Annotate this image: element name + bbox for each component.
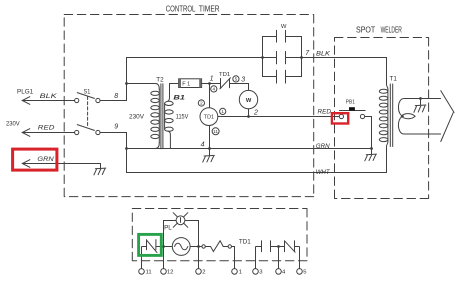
node junction right of sine motor <box>197 245 200 248</box>
contact TD1 normally-closed <box>220 78 231 89</box>
svg-text:S1: S1 <box>84 89 91 96</box>
svg-text:2: 2 <box>253 110 258 117</box>
wire BLK top run to W contacts <box>127 58 263 84</box>
svg-text:T1: T1 <box>390 76 398 83</box>
arrow PLG1 BLK <box>22 97 30 105</box>
wire PL lamp right leg <box>185 221 199 247</box>
svg-text:BLK: BLK <box>40 93 58 100</box>
pin 2 circled <box>198 100 204 106</box>
contact TD1 normally-open (bottom) <box>256 241 279 252</box>
node junction GRN to PB1 <box>370 147 373 150</box>
svg-text:T2: T2 <box>156 77 164 84</box>
node junction T2 primary top <box>125 82 128 85</box>
svg-text:PB1: PB1 <box>346 99 355 105</box>
svg-text:9: 9 <box>114 124 118 131</box>
transformer T2 primary winding <box>127 84 160 149</box>
wire N device to sine motor <box>156 246 173 248</box>
terminal 1 <box>232 269 238 275</box>
svg-text:5: 5 <box>235 77 238 82</box>
arrow PLG1 GRN <box>22 160 30 168</box>
terminal detail enclosure dashed box <box>132 209 307 261</box>
svg-text:8: 8 <box>114 93 118 100</box>
ground at node 4 <box>203 149 215 163</box>
svg-text:4: 4 <box>213 87 216 92</box>
pin 4 circled <box>211 86 217 92</box>
svg-text:115V: 115V <box>176 114 189 121</box>
svg-text:1: 1 <box>239 270 242 276</box>
node junction below W motor <box>247 115 250 118</box>
wire TD1 contact to W motor <box>230 84 249 91</box>
svg-text:TD1: TD1 <box>204 115 214 121</box>
node junction above terminal 4 <box>277 245 280 248</box>
svg-text:2: 2 <box>200 101 203 106</box>
switch S1 pole B <box>75 125 100 135</box>
svg-text:230V: 230V <box>6 120 20 127</box>
transformer T2 secondary winding <box>165 84 174 149</box>
svg-text:RED: RED <box>318 108 332 115</box>
wire spring switch to terminal 1 <box>232 247 235 269</box>
timer sync motor (sine) <box>172 238 190 256</box>
wire BLK from W contacts to T1 <box>302 58 387 85</box>
wire common bottom run to GRN junction <box>127 148 372 150</box>
relay contact block W (three parallel contacts) <box>263 30 302 83</box>
wire sine motor to spring switch <box>190 246 202 248</box>
welder electrode arm bottom <box>441 113 453 142</box>
transformer T1 core <box>390 84 392 147</box>
node junction W block right <box>300 56 303 59</box>
svg-text:3: 3 <box>259 270 263 276</box>
spot welder enclosure dashed box <box>335 38 429 199</box>
svg-text:5: 5 <box>303 270 307 276</box>
ground at GRN entry <box>94 168 106 175</box>
wire terminal 4 riser <box>278 247 280 269</box>
svg-text:PL: PL <box>164 225 172 232</box>
highlight red box GRN <box>13 149 57 170</box>
highlight green box N device <box>139 234 162 255</box>
svg-text:4: 4 <box>282 270 286 276</box>
svg-text:PLG1: PLG1 <box>17 88 34 95</box>
control timer enclosure dashed box <box>64 15 314 197</box>
svg-text:230V: 230V <box>129 114 145 121</box>
svg-text:W: W <box>281 24 287 30</box>
wire GRN from PLG1 to ground <box>22 164 100 169</box>
pin 1 circled <box>220 108 226 114</box>
node junction W block left <box>261 56 264 59</box>
N device (timer escapement) <box>142 240 158 253</box>
node 4 junction <box>208 147 211 150</box>
wire W motor to RED run <box>248 109 250 117</box>
svg-text:1: 1 <box>210 76 214 83</box>
switch S1 pole A <box>75 93 100 103</box>
wire PL lamp left leg <box>164 221 177 247</box>
wire 9 from S1 to node at transformer bottom <box>100 133 127 149</box>
svg-text:11: 11 <box>213 129 218 134</box>
transformer T1 secondary single turn <box>398 99 440 135</box>
spring loaded switch <box>202 241 232 252</box>
svg-text:W: W <box>246 98 252 104</box>
wire terminal 5 riser <box>299 247 301 269</box>
svg-text:1: 1 <box>221 109 224 114</box>
svg-text:GRN: GRN <box>37 156 54 163</box>
svg-text:4: 4 <box>201 142 205 149</box>
svg-text:BLK: BLK <box>316 51 331 58</box>
fuse F1 <box>170 79 210 88</box>
wire terminal 11 riser <box>141 247 143 269</box>
contact TD1 normally-closed (bottom) <box>279 241 300 252</box>
svg-text:3: 3 <box>241 76 245 83</box>
svg-text:GRN: GRN <box>316 143 330 150</box>
wire RED from PLG1 to S1 <box>22 132 74 134</box>
svg-text:TD1: TD1 <box>239 239 251 246</box>
wire terminal 3 riser <box>255 247 257 269</box>
svg-text:2: 2 <box>202 270 205 276</box>
ground at PB1 return <box>365 149 377 161</box>
lamp PL <box>173 213 188 228</box>
motor W coil <box>239 90 257 108</box>
transformer T1 primary winding <box>379 84 388 146</box>
svg-text:CONTROL: CONTROL <box>166 3 196 13</box>
S1 mechanical link dashed <box>87 97 89 128</box>
pushbutton PB1 <box>339 107 365 118</box>
wire terminal 2 riser <box>198 247 200 269</box>
node junction T1 secondary top <box>419 97 422 100</box>
wire WHT bottom run to T1 <box>127 147 387 173</box>
wire node1 to TD1 motor <box>209 84 211 108</box>
motor TD1 timer <box>200 108 218 126</box>
terminal 5 <box>297 269 303 275</box>
svg-text:12: 12 <box>167 270 174 276</box>
arrow PLG1 RED <box>22 129 30 137</box>
svg-text:B1: B1 <box>173 94 185 101</box>
node 1 junction <box>208 82 211 85</box>
wire node1 to TD1 contact <box>210 83 221 85</box>
terminal 2 <box>196 269 202 275</box>
pin 5 circled <box>233 76 239 82</box>
svg-text:WHT: WHT <box>316 169 331 176</box>
terminal 11 <box>139 269 145 275</box>
wire TD1 motor to node 4 <box>209 126 211 149</box>
svg-text:F 1: F 1 <box>182 82 190 88</box>
svg-text:RED: RED <box>38 125 55 132</box>
wire BLK from PLG1 to S1 <box>22 100 74 102</box>
svg-text:11: 11 <box>146 270 152 276</box>
ground at T1 secondary <box>414 99 426 113</box>
svg-text:TD1: TD1 <box>219 72 230 78</box>
wire terminal 12 riser <box>163 247 165 269</box>
terminal 12 <box>161 269 167 275</box>
highlight red box PB1 contact <box>332 113 348 123</box>
wire RED run 2 <box>218 116 339 118</box>
svg-text:7: 7 <box>305 50 310 57</box>
node junction T2 primary bottom <box>125 147 128 150</box>
transformer T2 core <box>161 84 163 149</box>
svg-text:SPOT: SPOT <box>356 25 375 35</box>
svg-text:TIMER: TIMER <box>199 3 220 13</box>
terminal 3 <box>253 269 259 275</box>
terminal 4 <box>276 269 282 275</box>
svg-text:WELDER: WELDER <box>381 25 402 35</box>
welder electrode arm top <box>441 91 454 113</box>
wire 8 from S1 to node at transformer top <box>100 84 127 101</box>
pin 11 circled <box>212 128 219 135</box>
wire PB1 to GRN junction <box>365 117 372 149</box>
node junction left of sine motor <box>162 245 165 248</box>
